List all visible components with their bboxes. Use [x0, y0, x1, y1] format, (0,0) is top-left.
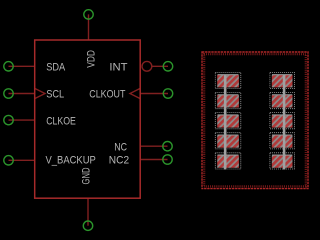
svg-text:CLKOUT: CLKOUT — [89, 89, 125, 101]
svg-text:VDD: VDD — [86, 50, 98, 68]
svg-text:NC: NC — [114, 141, 127, 153]
svg-text:V_BACKUP: V_BACKUP — [46, 155, 96, 167]
svg-text:INT: INT — [109, 62, 127, 74]
svg-text:GND: GND — [81, 168, 93, 185]
svg-text:CLKOE: CLKOE — [46, 115, 76, 127]
svg-text:NC2: NC2 — [109, 155, 129, 167]
svg-text:SCL: SCL — [46, 89, 64, 101]
svg-text:SDA: SDA — [46, 62, 65, 74]
